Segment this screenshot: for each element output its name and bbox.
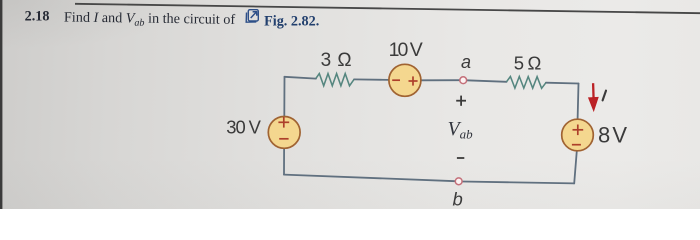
svg-text:2.18: 2.18 bbox=[25, 8, 50, 24]
svg-text:5 Ω: 5 Ω bbox=[514, 52, 542, 73]
svg-text:a: a bbox=[461, 52, 471, 72]
svg-text:ab: ab bbox=[460, 127, 474, 142]
svg-text:8 V: 8 V bbox=[598, 123, 627, 148]
svg-text:Fig. 2.82.: Fig. 2.82. bbox=[264, 13, 319, 29]
svg-text:Find I and Vab in the circuit: Find I and Vab in the circuit of bbox=[64, 10, 236, 30]
svg-text:10 V: 10 V bbox=[389, 39, 423, 61]
svg-text:30 V: 30 V bbox=[226, 116, 261, 137]
svg-text:3 Ω: 3 Ω bbox=[321, 50, 352, 71]
svg-text:b: b bbox=[453, 189, 463, 209]
